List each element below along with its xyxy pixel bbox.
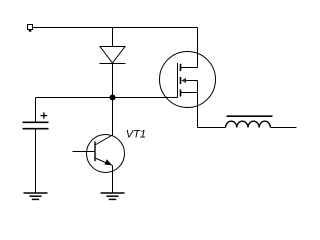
wire diode anode	[112, 28, 114, 47]
transistor VT1 body circle	[87, 135, 125, 173]
wire middle bus	[36, 97, 178, 99]
wire capacitor top lead	[35, 98, 37, 122]
svg-text:VT1: VT1	[126, 129, 146, 141]
mosfet VT2 source lead	[181, 92, 198, 94]
terminal X1	[28, 25, 33, 32]
wire drain riser	[197, 28, 199, 68]
inductor L1	[226, 116, 273, 127]
wire node to collector	[112, 98, 114, 136]
diode VD1	[100, 47, 126, 64]
node A junction	[110, 95, 116, 101]
mosfet VT2 body circle	[160, 52, 216, 108]
mosfet VT2 channel segment middle	[180, 77, 182, 84]
mosfet VT2 gate bar	[177, 63, 179, 98]
mosfet VT2 channel segment bottom	[180, 89, 182, 96]
wire source down	[197, 81, 199, 128]
wire top bus	[33, 27, 198, 29]
transistor VT1 emitter stroke	[95, 158, 113, 165]
ground under transistor	[101, 193, 125, 199]
mosfet VT2 body lead	[186, 80, 198, 82]
transistor VT1 collector stroke	[95, 135, 113, 145]
transistor VT1 emitter arrow	[105, 159, 113, 165]
wire inductor right lead	[270, 127, 296, 129]
capacitor C1 plus label	[41, 112, 48, 118]
capacitor C1	[23, 122, 49, 128]
wire capacitor bottom lead	[35, 129, 37, 193]
wire diode cathode to node	[112, 64, 114, 98]
mosfet VT2 body arrow	[181, 78, 186, 83]
mosfet VT2 drain lead	[181, 67, 198, 69]
transistor VT1 base lead	[73, 151, 96, 153]
wire emitter to ground	[112, 165, 114, 193]
transistor VT1 base bar	[94, 142, 96, 162]
mosfet VT2 channel segment top	[180, 64, 182, 71]
wire to inductor	[198, 127, 226, 129]
ground under capacitor	[24, 193, 48, 199]
